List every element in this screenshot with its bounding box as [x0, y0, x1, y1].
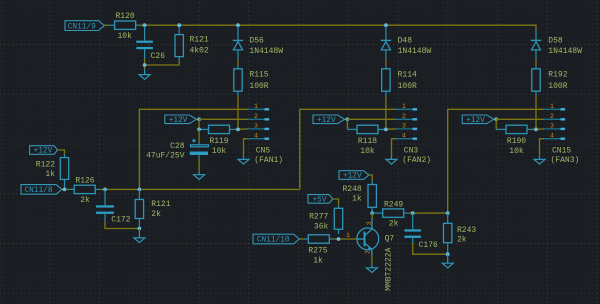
wire +12V stub CN5: [196, 118, 199, 120]
junction +12V CN15: [494, 117, 498, 121]
svg-text:1: 1: [402, 103, 406, 110]
ground under C28: [194, 171, 205, 179]
svg-text:3: 3: [254, 123, 258, 130]
connector CN15 pin 4: [544, 132, 565, 140]
resistor R192: [532, 66, 540, 96]
svg-text:1k: 1k: [313, 256, 323, 265]
svg-text:R115: R115: [249, 70, 268, 79]
resistor R121 (2k): [135, 189, 143, 228]
wire C26 to R121: [144, 59, 146, 69]
transistor Q7: [357, 219, 379, 255]
svg-text:+12V: +12V: [169, 117, 188, 125]
junction R243 bottom: [446, 252, 450, 256]
svg-text:(FAN2): (FAN2): [402, 156, 431, 165]
svg-text:C172: C172: [111, 216, 130, 225]
svg-text:36k: 36k: [314, 223, 329, 232]
diode D48: [381, 26, 391, 59]
svg-text:C28: C28: [170, 142, 185, 151]
svg-text:1: 1: [550, 103, 554, 110]
svg-text:(FAN3): (FAN3): [551, 156, 580, 165]
wire collector: [371, 213, 373, 219]
svg-text:4: 4: [254, 132, 258, 139]
power +12V for R122: [30, 146, 58, 156]
global label CN11/10: [253, 234, 299, 245]
resistor R121 (4k02): [175, 26, 183, 61]
resistor R115: [234, 66, 242, 96]
svg-text:1N4148W: 1N4148W: [249, 47, 283, 56]
wire CN11/10 to R275: [299, 238, 303, 240]
svg-text:CN11/10: CN11/10: [257, 237, 290, 245]
wire +12V to R248: [369, 175, 372, 181]
svg-text:100R: 100R: [548, 82, 567, 91]
wire +12V to pin2 CN15: [496, 118, 544, 120]
resistor R275: [303, 235, 334, 243]
ground CN3: [386, 156, 397, 164]
wire net CN3 pin1: [300, 109, 396, 189]
wire net CN5 pin1: [139, 109, 248, 189]
junction collector node: [370, 211, 374, 215]
svg-text:10k: 10k: [117, 32, 132, 41]
junction pin3 CN5: [236, 127, 240, 131]
ground under R243: [442, 254, 453, 268]
svg-text:2k: 2k: [80, 196, 90, 205]
resistor R248: [368, 181, 376, 214]
svg-text:1k: 1k: [45, 170, 55, 179]
junction pin3 CN3: [384, 127, 388, 131]
capacitor C28: [190, 139, 209, 159]
diode D56: [233, 26, 243, 59]
connector CN3 pin 3: [396, 123, 417, 131]
wire D56 to R115: [237, 59, 239, 66]
junction +12V CN3: [346, 117, 350, 121]
svg-text:R190: R190: [507, 137, 526, 146]
wire R119 to pin3: [235, 128, 249, 131]
svg-text:+12V: +12V: [317, 117, 336, 125]
junction R121(2k) net: [138, 188, 142, 192]
wire top net: [139, 25, 536, 30]
resistor R119: [199, 125, 234, 133]
svg-text:R275: R275: [308, 247, 327, 256]
resistor R243: [444, 213, 452, 254]
svg-text:R243: R243: [457, 226, 476, 235]
svg-text:+5V: +5V: [312, 197, 326, 205]
svg-text:D58: D58: [548, 37, 563, 46]
power +12V for CN3: [313, 115, 345, 125]
ground under Q7 emitter: [366, 265, 377, 273]
svg-text:R121: R121: [190, 36, 209, 45]
svg-text:10k: 10k: [212, 147, 227, 156]
ground under C26: [139, 69, 150, 79]
svg-text:+12V: +12V: [343, 173, 362, 181]
global label CN11/9: [65, 21, 105, 32]
wire D48 to R114: [385, 59, 387, 66]
junction base node: [337, 237, 341, 241]
resistor R126: [69, 185, 100, 193]
svg-text:+12V: +12V: [34, 148, 53, 156]
svg-text:D56: D56: [249, 37, 264, 46]
svg-text:R114: R114: [398, 70, 417, 79]
svg-text:4: 4: [550, 132, 554, 139]
resistor R277: [334, 205, 342, 234]
svg-text:1N4148W: 1N4148W: [548, 47, 582, 56]
resistor R249: [372, 209, 409, 217]
wire C176 bottom: [413, 243, 448, 254]
svg-text:2: 2: [550, 113, 554, 120]
connector CN5 pin 4: [248, 132, 269, 140]
svg-text:R120: R120: [115, 12, 134, 21]
svg-text:100R: 100R: [398, 82, 417, 91]
capacitor C172: [96, 189, 114, 222]
wire R126 to net: [100, 188, 139, 190]
resistor R120: [110, 21, 139, 29]
wire D58 to R192: [535, 59, 537, 66]
ground CN5: [238, 156, 249, 164]
svg-text:10k: 10k: [360, 147, 375, 156]
svg-text:4: 4: [402, 132, 406, 139]
svg-text:R118: R118: [358, 137, 377, 146]
wire C28 to ground: [198, 159, 200, 171]
svg-text:3: 3: [550, 123, 554, 130]
connector CN5 pin 2: [248, 113, 269, 121]
wire emitter to ground: [371, 255, 373, 265]
junction C26 top: [143, 23, 147, 27]
junction D48 top: [384, 23, 388, 27]
wire R249 to C176 node: [409, 212, 448, 214]
svg-text:1N4148W: 1N4148W: [398, 47, 432, 56]
svg-text:+12V: +12V: [466, 117, 485, 125]
junction R243 top: [446, 211, 450, 215]
svg-text:2: 2: [365, 250, 372, 254]
svg-text:47uF/25V: 47uF/25V: [146, 151, 185, 160]
junction C172 top: [103, 188, 107, 192]
global label CN11/8: [21, 185, 62, 196]
wire +12V down CN15: [495, 119, 497, 129]
ground under R121(2k): [134, 231, 145, 243]
diode D58: [531, 31, 541, 60]
svg-text:CN5: CN5: [256, 146, 271, 155]
svg-text:R119: R119: [209, 137, 228, 146]
svg-text:3: 3: [402, 123, 406, 130]
svg-text:C26: C26: [151, 52, 166, 61]
svg-text:10k: 10k: [509, 147, 524, 156]
svg-text:R248: R248: [342, 185, 361, 194]
wire R114 to pin3 junction: [385, 96, 387, 129]
svg-text:2: 2: [402, 113, 406, 120]
svg-text:D48: D48: [398, 37, 413, 46]
svg-text:R249: R249: [384, 201, 403, 210]
resistor R114: [382, 66, 390, 96]
wire net to CN3 drop: [139, 188, 299, 190]
svg-text:R122: R122: [36, 161, 55, 170]
wire pin4 to ground CN5: [244, 139, 249, 156]
svg-text:R126: R126: [75, 177, 94, 186]
resistor R118: [347, 125, 383, 133]
connector CN5 pin 3: [248, 123, 269, 131]
wire +12V stub CN15: [494, 118, 496, 120]
svg-text:1: 1: [254, 103, 258, 110]
wire pin4 to ground CN15: [540, 139, 545, 156]
wire R118 to pin3: [383, 128, 396, 131]
junction C26 bottom: [143, 63, 147, 67]
wire +12V to C28: [198, 129, 200, 142]
wire +12V to pin2 CN3: [347, 118, 396, 120]
resistor R122: [60, 154, 68, 190]
svg-text:1k: 1k: [352, 195, 362, 204]
wire +12V to pin2 CN5: [199, 118, 248, 120]
capacitor C26: [136, 26, 153, 59]
svg-text:R192: R192: [548, 70, 567, 79]
svg-text:MMBT2222A: MMBT2222A: [384, 247, 393, 290]
connector CN5 pin 1: [248, 103, 269, 111]
wire CN11/8 to R126: [62, 188, 69, 190]
junction R121 top: [177, 23, 181, 27]
wire pin4 to ground CN3: [392, 139, 397, 156]
svg-text:2k: 2k: [457, 235, 467, 244]
wire +12V down CN3: [346, 119, 348, 129]
junction R122 bottom: [63, 188, 67, 192]
junction R119 left: [197, 127, 201, 131]
svg-text:CN11/8: CN11/8: [24, 187, 52, 195]
wire net CN15 pin1: [448, 109, 544, 213]
connector CN15 pin 1: [544, 103, 565, 111]
power +12V for CN15: [462, 115, 494, 125]
svg-text:CN3: CN3: [404, 146, 419, 155]
svg-text:2: 2: [254, 113, 258, 120]
wire R121 to ground: [138, 229, 140, 232]
wire C172 to R121: [105, 222, 139, 229]
connector CN3 pin 2: [396, 113, 417, 121]
junction C176 top: [411, 211, 415, 215]
connector CN3 pin 4: [396, 132, 417, 140]
wire +5V to R277: [333, 199, 339, 205]
junction pin3 CN15: [534, 127, 538, 131]
svg-text:2k: 2k: [151, 210, 161, 219]
svg-text:1: 1: [346, 232, 350, 239]
junction D56 top: [236, 23, 240, 27]
connector CN15 pin 2: [544, 113, 565, 121]
svg-text:4k02: 4k02: [190, 46, 209, 55]
svg-text:100R: 100R: [249, 82, 268, 91]
wire R115 to pin3 junction: [237, 96, 239, 129]
svg-text:Q7: Q7: [385, 235, 395, 244]
svg-text:CN15: CN15: [552, 146, 571, 155]
wire R192 to pin3 junction: [535, 96, 537, 129]
connector CN3 pin 1: [396, 103, 417, 111]
wire +12V stub CN3: [345, 118, 348, 120]
svg-text:2k: 2k: [389, 220, 399, 229]
power +5V: [308, 195, 333, 205]
ground CN15: [534, 156, 545, 164]
svg-text:R121: R121: [151, 200, 170, 209]
wire R190 to pin3: [532, 128, 544, 131]
capacitor C176: [404, 213, 421, 243]
svg-text:C176: C176: [419, 241, 438, 250]
svg-text:CN11/9: CN11/9: [68, 23, 96, 31]
resistor R190: [496, 125, 532, 133]
power +12V for CN5: [165, 115, 197, 125]
svg-text:R277: R277: [309, 212, 328, 221]
wire R275 to Q7 base: [334, 238, 357, 240]
wire CN11/9 stub: [105, 24, 111, 26]
junction R121(2k) bottom: [138, 227, 142, 231]
wire +12V down CN5: [198, 119, 200, 129]
svg-text:(FAN1): (FAN1): [254, 156, 283, 165]
connector CN15 pin 3: [544, 123, 565, 131]
wire C26 branch to R121: [145, 61, 180, 65]
wire +12V to R122: [58, 150, 65, 154]
power +12V for R248: [339, 171, 369, 181]
junction +12V CN5: [197, 117, 201, 121]
